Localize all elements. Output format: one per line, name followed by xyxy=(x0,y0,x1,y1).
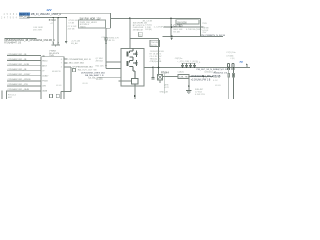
wire exits bottom at x=60.9 xyxy=(60,91,62,99)
battery BT4X2 leads xyxy=(52,18,54,45)
junction dot on rail B at battery xyxy=(52,17,54,19)
svg-text:CPUFANCON1_4CB47: CPUFANCON1_4CB47 xyxy=(8,73,32,76)
svg-text:4CB47: 4CB47 xyxy=(42,76,49,78)
svg-text:0.1U: 0.1U xyxy=(213,80,218,82)
wire vertical x=130.8 rail E to MOSFET box xyxy=(129,18,131,48)
svg-text:HG10: HG10 xyxy=(42,60,48,62)
ground arrow bottom xyxy=(134,95,136,97)
heading overline xyxy=(4,38,36,40)
svg-text:2N7002: 2N7002 xyxy=(96,60,104,62)
svg-text:RA_MA_RAST 1 B: RA_MA_RAST 1 B xyxy=(85,74,104,77)
junction dot on drop xyxy=(188,85,190,87)
signal row 7 xyxy=(7,85,41,87)
resistor inner bottom rect xyxy=(132,78,139,84)
resistor pack arrows on W7 xyxy=(182,63,196,67)
svg-text:7545: 7545 xyxy=(49,55,55,57)
vertical x=106 component chain xyxy=(105,28,107,68)
capacitor marks on right verticals xyxy=(228,74,230,77)
wire drop x=158.5 down to thermistor xyxy=(158,38,160,74)
wire down from stub3 xyxy=(70,67,72,92)
bottom pin stubs of connector xyxy=(50,94,53,98)
svg-text:BT4X2: BT4X2 xyxy=(49,20,57,22)
svg-text:4B_A0: 4B_A0 xyxy=(71,42,78,45)
wire elbow left at bottom xyxy=(61,90,71,92)
wire W7 7V rail (y=67.5) xyxy=(144,67,250,69)
wire drop from rail A at x=110.4 xyxy=(109,13,111,28)
junction dot W8 x=203.3 xyxy=(202,76,204,78)
small label box left of DDR text xyxy=(73,69,76,72)
wire F (y=27.1) xyxy=(164,26,204,28)
MOSFET box Q1 xyxy=(121,48,144,86)
wire gate into MOSFET box (y=77.7) xyxy=(98,77,121,79)
svg-text:4B 4B: 4B 4B xyxy=(56,85,62,87)
off-sheet bracket marks bottom-left xyxy=(1,91,3,100)
thermistor RT4X4 symbol xyxy=(157,75,162,80)
pin stub right row 3 xyxy=(64,66,71,68)
signal row 3 xyxy=(7,65,41,67)
svg-text:CPUFANSEN4B 4B4: CPUFANSEN4B 4B4 xyxy=(72,66,93,69)
svg-text:4B 4B: 4B 4B xyxy=(215,85,221,87)
wire bus bar above resistor pack xyxy=(181,62,195,64)
junction dot rail E at x=129.8 xyxy=(129,18,131,20)
svg-text:2 4 7 9 9 4: 2 4 7 9 9 4 xyxy=(1,18,18,20)
wire G (y=36.4) xyxy=(163,35,224,37)
junction dot wire G at x=171.6 xyxy=(171,36,173,38)
wire gate1 (y=62) xyxy=(106,61,121,63)
signal row 4 xyxy=(7,70,41,72)
svg-text:PM_SLP_S3_N_R4B4(Y)4 1 B: PM_SLP_S3_N_R4B4(Y)4 1 B xyxy=(197,69,228,71)
signal row 5 xyxy=(7,75,41,77)
wire rail E (y=18.4) xyxy=(110,17,200,19)
svg-text:4B 4B7: 4B 4B7 xyxy=(96,79,104,81)
svg-text:ITXU: ITXU xyxy=(202,23,207,25)
junction dot at elbow x=66.2 xyxy=(65,17,67,19)
svg-text:4 (B): 4 (B) xyxy=(230,58,235,60)
svg-text:25V: 25V xyxy=(202,32,206,34)
dots for arrows on W7 xyxy=(182,67,183,68)
wire below box to ground xyxy=(134,86,136,99)
svg-text:TB(X): TB(X) xyxy=(80,26,86,28)
svg-text:4.7UF/16 (X5R): 4.7UF/16 (X5R) xyxy=(186,29,202,31)
signal row 6 xyxy=(7,80,41,82)
svg-text:R4 7B: R4 7B xyxy=(151,45,157,47)
svg-text:4B4B: 4B4B xyxy=(42,91,48,93)
net label box on W8 xyxy=(178,75,189,79)
svg-text:CPUFANCON1_47B: CPUFANCON1_47B xyxy=(8,83,29,86)
svg-text:4.7U(B): 4.7U(B) xyxy=(226,55,233,57)
svg-text:PG4B: PG4B xyxy=(42,81,48,83)
svg-text:Z_C1(TB2): Z_C1(TB2) xyxy=(171,24,183,27)
svg-text:PM_PWRBTN_N_R4 1B: PM_PWRBTN_N_R4 1B xyxy=(201,35,226,37)
wire elbow down at x=66.2 to arrow xyxy=(65,18,67,42)
svg-text:C1(Y) 10n: C1(Y) 10n xyxy=(226,52,236,54)
pin stub right row 2 xyxy=(64,62,68,64)
label box bottom-left of mid area xyxy=(150,40,160,46)
net label box under rail E xyxy=(176,20,199,24)
svg-text:16V(B): 16V(B) xyxy=(145,29,152,31)
svg-text:4B 4B: 4B 4B xyxy=(82,83,88,85)
svg-text:C4B_TB4: C4B_TB4 xyxy=(179,77,189,79)
capacitor drop x=152.9 xyxy=(152,68,154,78)
wire inner pin at y=81 xyxy=(118,80,131,82)
svg-text:R4B4(Y)4 1 B: R4B4(Y)4 1 B xyxy=(214,73,228,75)
wire vertical x=171 from rail E to wire G xyxy=(170,18,172,36)
svg-text:CPUFANCON1_4B4B: CPUFANCON1_4B4B xyxy=(8,88,30,91)
signal row 2 xyxy=(7,60,41,62)
junction dot W7 x=158.5 xyxy=(158,67,160,69)
svg-text:25V X5R: 25V X5R xyxy=(33,29,42,31)
wire E corner drop x=200.6 xyxy=(200,18,202,36)
svg-text:1_C47UF_4: 1_C47UF_4 xyxy=(154,26,167,28)
svg-text:4B 1%: 4B 1% xyxy=(109,40,115,42)
svg-text:+_4(Y)_C(B)_1_(4)(Y): +_4(Y)_C(B)_1_(4)(Y) xyxy=(177,61,198,63)
svg-text:5% 4B: 5% 4B xyxy=(173,31,180,33)
signal row 1 xyxy=(7,55,41,57)
junction dot wire F at x=171.6 xyxy=(171,26,173,28)
svg-text:CPUFANCON1_4V4B: CPUFANCON1_4V4B xyxy=(8,63,30,66)
svg-text:RA_OUT_CUT *4B: RA_OUT_CUT *4B xyxy=(78,68,97,71)
resistor on chain xyxy=(105,38,107,41)
transistor Q1A nmos top xyxy=(127,48,137,59)
svg-text:CPUFANSCONN1_4B_CPUFANS4_CN4 4: CPUFANSCONN1_4B_CPUFANS4_CN4 4B_4 xyxy=(4,39,55,42)
capacitor on chain xyxy=(105,41,107,43)
svg-text:4B_C4 4B: 4B_C4 4B xyxy=(143,20,153,22)
svg-text:4B 4B7 B: 4B 4B7 B xyxy=(52,71,61,73)
ground arrow at x=66.2 xyxy=(65,41,68,43)
junction dot on chain xyxy=(105,40,106,41)
wire drop right of thermistor xyxy=(163,73,165,94)
svg-text:C8(T)9a: C8(T)9a xyxy=(175,58,183,60)
connector J-SW box xyxy=(79,20,106,28)
junction dots on W7 at pins xyxy=(228,67,230,69)
pin stub right row 1 xyxy=(64,58,68,60)
svg-text:0.1UF 25V: 0.1UF 25V xyxy=(195,94,206,96)
svg-text:CPUFANCON1_4PB1B: CPUFANCON1_4PB1B xyxy=(8,78,32,81)
wire rail B (y=17.6) xyxy=(27,17,66,19)
junction dot at gate tee xyxy=(105,65,107,67)
svg-text:C7 4B: C7 4B xyxy=(68,22,74,24)
wire below thermistor xyxy=(159,80,161,83)
svg-text:4TB(S)xx 4B: 4TB(S)xx 4B xyxy=(150,61,162,63)
svg-text:4.7K: 4.7K xyxy=(165,87,170,89)
wire jog under box xyxy=(106,27,110,29)
connector pins component at x=228-234 xyxy=(227,63,234,99)
signal row 8 xyxy=(7,90,41,92)
svg-text:CPUFANCON1_4B: CPUFANCON1_4B xyxy=(8,68,27,71)
battery plate bar xyxy=(51,44,60,46)
svg-text:+3.3VLAN_PW 1 B: +3.3VLAN_PW 1 B xyxy=(191,79,211,82)
wire from inner rect to box bottom xyxy=(134,84,136,86)
svg-text:R44 10K: R44 10K xyxy=(96,66,105,68)
wire drop from W8 at x=188.9 xyxy=(188,78,190,89)
wire elbow (y=68.3) xyxy=(106,67,121,69)
ground arrow below wire G xyxy=(170,38,172,41)
junction dot W7 x=152.9 xyxy=(152,67,154,69)
junction dot rail E at x=171 xyxy=(170,18,172,20)
node +12V_S0 highlighted net name xyxy=(19,13,30,16)
ground symbol bars xyxy=(186,90,191,93)
transistor Q1B nmos bottom xyxy=(127,59,137,78)
svg-text:CPUFANPWM_4B 1 B: CPUFANPWM_4B 1 B xyxy=(69,58,92,61)
svg-text:C(B)4x: C(B)4x xyxy=(178,71,185,73)
svg-text:CPUFANCON1_4B: CPUFANCON1_4B xyxy=(8,53,27,56)
svg-text:25V 4B: 25V 4B xyxy=(68,28,75,30)
svg-text:R7(A)4B447 1 B: R7(A)4B447 1 B xyxy=(4,42,21,45)
wire 12V rail A (y=13.2) xyxy=(53,12,110,14)
connector J1 box left xyxy=(41,57,64,99)
wire W8 (y=76.4) from thermistor right xyxy=(163,75,213,77)
svg-text:4B4_CB47 4B4: 4B4_CB47 4B4 xyxy=(69,63,85,65)
small component box above wire H xyxy=(139,32,143,36)
svg-text:CPUFANCON1_4B: CPUFANCON1_4B xyxy=(8,58,27,61)
7V terminal arrow xyxy=(246,65,248,68)
wire H from x=130 to 158.5 at y=40.4 xyxy=(130,37,159,39)
svg-text:25V(B) 4X: 25V(B) 4X xyxy=(133,30,144,32)
